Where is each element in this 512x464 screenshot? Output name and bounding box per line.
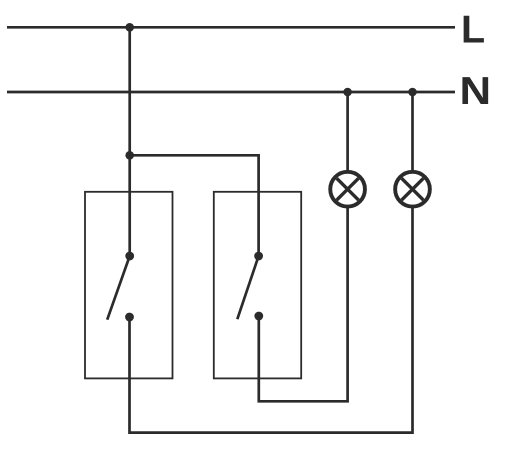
svg-text:L: L xyxy=(461,9,485,52)
svg-text:N: N xyxy=(460,70,492,113)
